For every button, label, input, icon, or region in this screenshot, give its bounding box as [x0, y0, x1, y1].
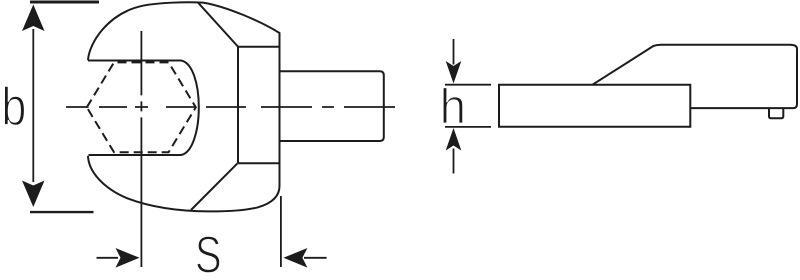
dimension h: upper arrow (pointing down) — [453, 39, 455, 65]
chamfer edge (bottom) — [191, 163, 238, 210]
svg-text:h: h — [440, 79, 466, 134]
shank (square drive tang, front view) — [280, 71, 384, 141]
svg-text:b: b — [1, 76, 26, 137]
dimension b: top extension tick — [30, 1, 99, 4]
dimension h: lower arrow (pointing up) — [453, 149, 455, 174]
side view: blade rectangle — [499, 85, 690, 127]
dimension h: top extension tick — [445, 84, 491, 86]
vertical centerline / S extension line (left) — [140, 31, 142, 267]
arrowhead up (b) — [22, 5, 45, 32]
dimension S: left arrow — [97, 257, 119, 259]
dimension b: bottom extension tick — [30, 211, 94, 213]
side view: wrench body (handle) outline — [592, 45, 797, 108]
open-end head outline (front view) — [88, 2, 280, 211]
dimension b: vertical line with arrows — [32, 29, 34, 182]
neck face rectangle edges — [238, 47, 280, 164]
hexagon (dashed, across flats) — [87, 62, 196, 152]
jaw inner profile (top face, arc, bottom face) — [88, 61, 199, 156]
horizontal centerline — [66, 106, 395, 108]
svg-text:S: S — [195, 225, 222, 280]
side view: release button — [769, 108, 783, 118]
dimension S: right extension line — [280, 196, 282, 267]
arrowhead down (b) — [22, 181, 45, 208]
chamfer edge (top) — [198, 3, 238, 47]
dimension S: right arrow — [304, 257, 327, 259]
dimension h: bottom extension tick — [445, 126, 491, 128]
